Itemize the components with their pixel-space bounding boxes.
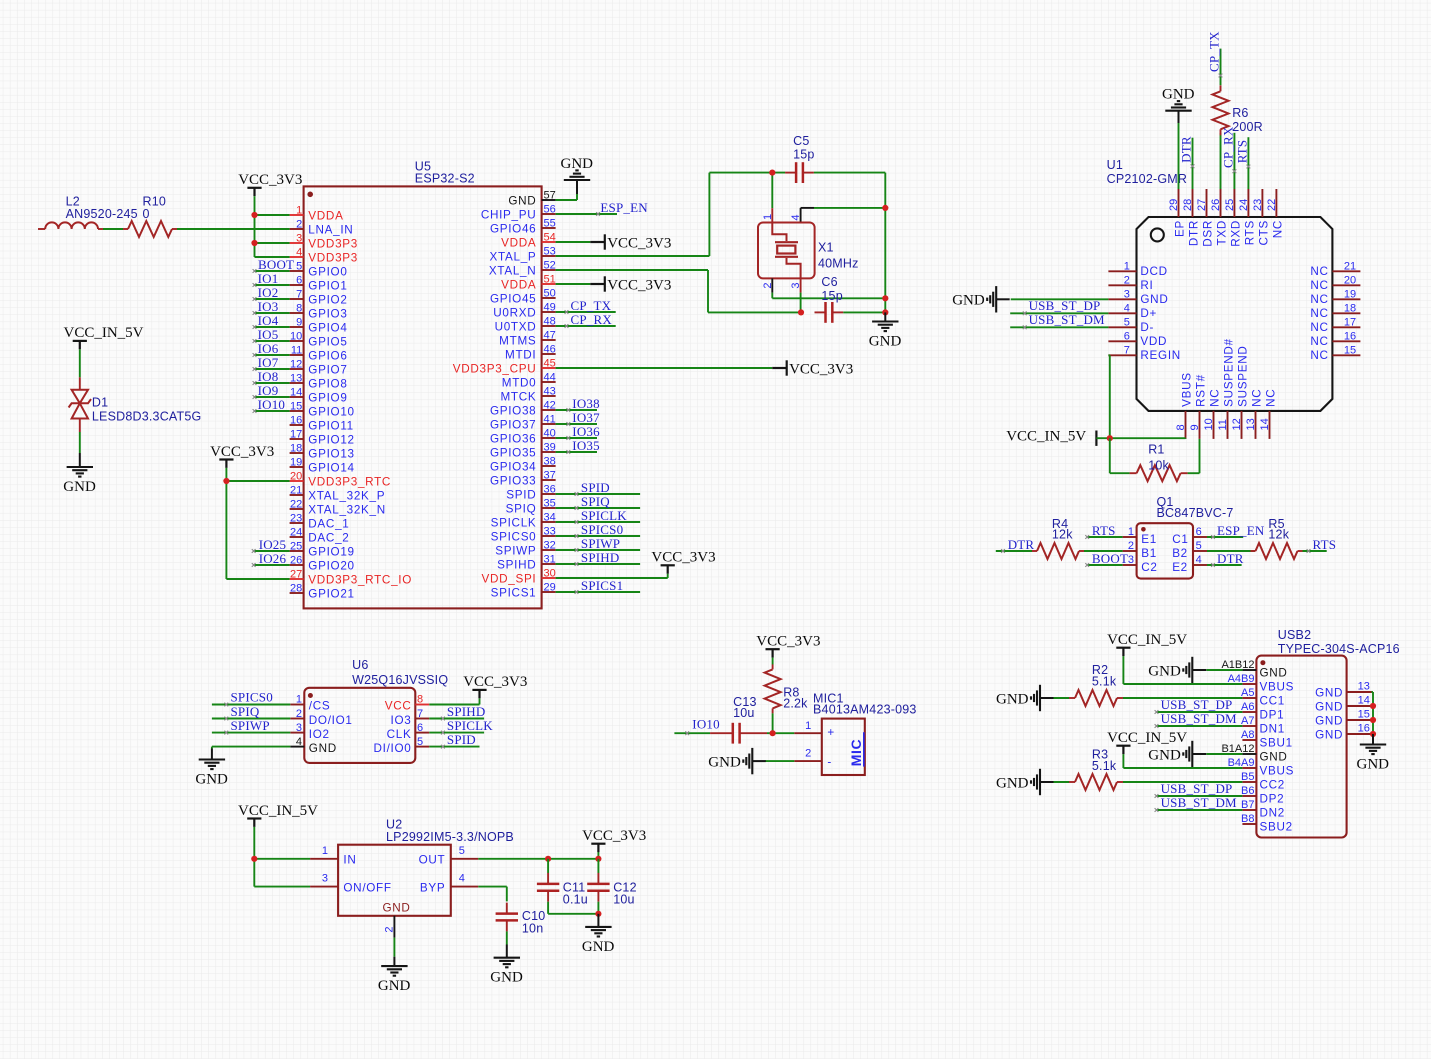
net label SPIWP wire (U6 pin 3)	[212, 731, 290, 735]
svg-text:C1: C1	[1172, 533, 1188, 546]
wire U6 pin4 GND	[212, 747, 290, 749]
ground GND (C10)	[506, 931, 508, 944]
svg-text:GPIO19: GPIO19	[308, 546, 354, 559]
svg-text:USB_ST_DM: USB_ST_DM	[1161, 711, 1237, 726]
svg-text:D-: D-	[1140, 321, 1154, 334]
svg-text:CC1: CC1	[1260, 694, 1285, 707]
svg-text:CP2102-GMR: CP2102-GMR	[1107, 172, 1188, 186]
svg-text:LNA_IN: LNA_IN	[308, 224, 353, 237]
svg-text:56: 56	[544, 203, 556, 215]
net label SPICS0 wire (U5 pin 33)	[556, 534, 641, 538]
svg-text:IO2: IO2	[309, 728, 330, 741]
junction XTAL_N at C6	[798, 309, 804, 315]
svg-text:24: 24	[290, 526, 302, 538]
svg-text:A7: A7	[1241, 715, 1254, 727]
svg-text:35: 35	[544, 497, 556, 509]
svg-text:SPICS1: SPICS1	[581, 578, 623, 593]
svg-text:USB_ST_DP: USB_ST_DP	[1161, 697, 1233, 712]
net label SPIWP wire (U5 pin 32)	[556, 548, 641, 552]
svg-text:26: 26	[1210, 199, 1222, 211]
svg-text:19: 19	[1344, 288, 1356, 300]
svg-text:+: +	[827, 726, 835, 739]
svg-text:GPIO33: GPIO33	[490, 475, 536, 488]
svg-text:AN9520-245: AN9520-245	[66, 207, 138, 221]
svg-text:5.1k: 5.1k	[1092, 675, 1117, 689]
net label USB_ST_DP wire (DP2)	[1155, 794, 1243, 798]
svg-text:DP2: DP2	[1260, 792, 1285, 805]
svg-text:A6: A6	[1241, 701, 1254, 713]
svg-text:SBU1: SBU1	[1260, 736, 1293, 749]
svg-text:GPIO21: GPIO21	[308, 588, 354, 601]
svg-text:VCC_3V3: VCC_3V3	[582, 828, 646, 844]
svg-text:IO2: IO2	[258, 285, 279, 300]
power flag VCC_3V3 (above U5 pin 1)	[238, 172, 302, 196]
capacitor C10 10n	[496, 903, 546, 936]
ground GND (USB2 B1A12)	[1207, 753, 1243, 755]
svg-text:VDD3P3: VDD3P3	[308, 252, 358, 265]
power flag VCC_IN_5V (U1/R1)	[1006, 428, 1096, 446]
svg-text:DP1: DP1	[1260, 708, 1285, 721]
svg-text:RST#: RST#	[1195, 374, 1208, 407]
svg-text:42: 42	[544, 399, 556, 411]
svg-text:VCC_IN_5V: VCC_IN_5V	[64, 325, 144, 341]
svg-text:SPIQ: SPIQ	[231, 704, 260, 719]
svg-text:USB_ST_DP: USB_ST_DP	[1161, 781, 1233, 796]
power flag VCC_3V3 (U2 out)	[582, 828, 646, 852]
junction at pin3	[251, 240, 257, 246]
svg-text:SPICLK: SPICLK	[447, 718, 493, 733]
svg-text:GPIO12: GPIO12	[308, 434, 354, 447]
net label BOOT wire (U5 pin 5)	[253, 269, 290, 273]
wire C11/C12 ground rail	[548, 913, 598, 915]
svg-text:X1: X1	[818, 241, 834, 255]
svg-text:2: 2	[384, 926, 396, 932]
net label IO38 wire (U5 pin 42)	[556, 408, 597, 412]
wire VCC_3V3 to U5 pins 1,3,4	[255, 196, 290, 257]
svg-text:C5: C5	[793, 134, 809, 148]
svg-text:ESP_EN: ESP_EN	[1217, 523, 1265, 538]
svg-text:VCC_3V3: VCC_3V3	[756, 634, 820, 650]
svg-text:SPID: SPID	[581, 480, 610, 495]
svg-text:55: 55	[544, 217, 556, 229]
svg-text:VCC_IN_5V: VCC_IN_5V	[238, 803, 318, 819]
svg-text:GND: GND	[378, 978, 411, 994]
svg-text:5: 5	[296, 260, 302, 272]
svg-text:GPIO37: GPIO37	[490, 419, 536, 432]
svg-text:C2: C2	[1141, 561, 1157, 574]
power flag VCC_3V3 (R8)	[756, 634, 820, 658]
junction VCC_IN_5V node	[1107, 435, 1113, 441]
svg-text:DTR: DTR	[1217, 551, 1244, 566]
svg-text:IO25: IO25	[259, 537, 287, 552]
net label IO36 wire (U5 pin 40)	[556, 436, 597, 440]
svg-text:RTS: RTS	[1234, 140, 1249, 164]
wire R1 branch	[1110, 438, 1200, 473]
svg-text:VDD3P3_RTC_IO: VDD3P3_RTC_IO	[308, 574, 412, 587]
svg-text:VCC_3V3: VCC_3V3	[651, 550, 715, 566]
svg-text:MTDI: MTDI	[505, 349, 536, 362]
svg-text:IO38: IO38	[572, 396, 600, 411]
svg-text:SPIWP: SPIWP	[495, 545, 536, 558]
junction XTAL_P at C5	[769, 170, 775, 176]
svg-text:DN1: DN1	[1260, 722, 1285, 735]
svg-text:NC: NC	[1310, 265, 1328, 278]
junction OUT/C11	[545, 856, 551, 862]
svg-text:16: 16	[1344, 330, 1356, 342]
svg-text:VDDA: VDDA	[501, 279, 536, 292]
net label ESP_EN wire (Q1 pin6 C1)	[1207, 535, 1243, 539]
wire VCC_3V3 to U5 pins 20,27	[226, 468, 289, 579]
svg-text:SPIWP: SPIWP	[581, 536, 620, 551]
net label IO7 wire (U5 pin 12)	[253, 367, 290, 371]
ground GND (U1 pin3)	[1011, 298, 1109, 300]
svg-text:IO36: IO36	[572, 424, 600, 439]
svg-text:51: 51	[544, 273, 556, 285]
junction at pin20	[223, 478, 229, 484]
svg-text:B8: B8	[1241, 813, 1254, 825]
svg-text:14: 14	[1259, 418, 1271, 430]
svg-text:IO3: IO3	[258, 299, 279, 314]
svg-text:VBUS: VBUS	[1181, 372, 1194, 407]
power flag VCC_3V3 (U5 pin 45 VDD3P3_CPU)	[556, 367, 773, 369]
svg-text:7: 7	[1124, 344, 1130, 356]
svg-text:A8: A8	[1241, 729, 1254, 741]
ground + resistor R2 5.1k (CC1)	[1045, 697, 1069, 699]
wire R3 to CC2	[1123, 781, 1242, 783]
svg-text:GPIO1: GPIO1	[308, 280, 347, 293]
power flag VCC_IN_5V (USB2 VBUS B4A9)	[1123, 754, 1242, 768]
svg-text:XTAL_P: XTAL_P	[490, 251, 537, 264]
power flag VCC_3V3 (U5 pin 51)	[556, 283, 591, 285]
svg-text:1: 1	[322, 845, 328, 857]
svg-text:R1: R1	[1148, 443, 1164, 457]
net label RTS wire (U1 pin24)	[1247, 137, 1251, 189]
net label SPID wire (U5 pin 36)	[556, 492, 641, 496]
svg-text:20: 20	[290, 470, 302, 482]
svg-text:47: 47	[544, 329, 556, 341]
svg-text:21: 21	[1344, 260, 1356, 272]
svg-text:11: 11	[291, 344, 302, 356]
svg-text:48: 48	[544, 315, 556, 327]
svg-text:12: 12	[290, 358, 302, 370]
wire XTAL_P net (U5 pin53 to C5/X1 pin1)	[556, 173, 786, 256]
IC U2 LP2992IM5-3.3/NOPB	[310, 818, 514, 938]
svg-text:GND: GND	[1357, 757, 1390, 773]
svg-text:17: 17	[1344, 316, 1356, 328]
svg-text:EP: EP	[1174, 220, 1187, 237]
inductor L2 AN9520-245	[38, 195, 138, 230]
svg-text:GND: GND	[382, 902, 410, 915]
svg-text:28: 28	[1182, 199, 1194, 211]
net label IO5 wire (U5 pin 10)	[253, 339, 290, 343]
svg-text:DO/IO1: DO/IO1	[309, 714, 353, 727]
svg-text:GND: GND	[1148, 663, 1181, 679]
junction OUT/C12	[595, 856, 601, 862]
wire 5V to D1	[79, 349, 81, 377]
svg-text:CTS: CTS	[1257, 220, 1270, 245]
IC U5 ESP32-S2	[290, 160, 556, 609]
svg-text:E2: E2	[1172, 561, 1188, 574]
net label IO1 wire (U5 pin 6)	[253, 283, 290, 287]
net label DTR wire + resistor R4 12k (Q1 pin2 B1)	[996, 549, 1032, 553]
svg-text:5: 5	[459, 845, 465, 857]
svg-text:12k: 12k	[1052, 527, 1073, 541]
wire USB2 shield GND rail	[1372, 692, 1374, 734]
svg-text:IO7: IO7	[258, 355, 279, 370]
svg-text:GPIO4: GPIO4	[308, 322, 347, 335]
net label IO25 wire (U5 pin 25)	[252, 549, 290, 553]
ground GND (U1 EP pin29)	[1178, 123, 1180, 189]
svg-text:BYP: BYP	[420, 881, 446, 894]
net label IO8 wire (U5 pin 13)	[253, 381, 290, 385]
resistor R2 5.1k	[1069, 663, 1123, 706]
capacitor C5 15p	[785, 134, 814, 183]
svg-text:SPIHD: SPIHD	[497, 559, 536, 572]
svg-text:19: 19	[290, 456, 302, 468]
svg-text:10n: 10n	[522, 922, 543, 936]
svg-text:4: 4	[790, 214, 802, 220]
svg-text:43: 43	[544, 385, 556, 397]
junction C12 gnd	[595, 911, 601, 917]
svg-text:1: 1	[1128, 526, 1134, 538]
svg-text:GND: GND	[1148, 747, 1181, 763]
svg-text:GND: GND	[490, 970, 523, 986]
svg-text:6: 6	[417, 722, 423, 734]
svg-text:10k: 10k	[1148, 459, 1169, 473]
junction GND rail / pin2	[882, 295, 888, 301]
svg-text:IO10: IO10	[258, 397, 286, 412]
svg-text:27: 27	[1196, 199, 1208, 211]
svg-text:VCC_3V3: VCC_3V3	[607, 235, 671, 251]
svg-text:36: 36	[544, 483, 556, 495]
svg-text:VDDA: VDDA	[501, 237, 536, 250]
svg-text:BOOT: BOOT	[258, 257, 294, 272]
svg-text:29: 29	[1168, 199, 1180, 211]
svg-text:W25Q16JVSSIQ: W25Q16JVSSIQ	[352, 673, 448, 687]
svg-text:31: 31	[544, 553, 556, 565]
svg-text:GND: GND	[1162, 87, 1195, 103]
net label SPICS0 wire (U6 pin 1)	[212, 703, 290, 707]
net label SPICLK wire (U6 pin 6)	[429, 731, 484, 735]
svg-text:B4013AM423-093: B4013AM423-093	[813, 703, 917, 717]
svg-text:22: 22	[290, 498, 302, 510]
svg-text:U0RXD: U0RXD	[493, 307, 536, 320]
svg-text:22: 22	[1266, 199, 1278, 211]
svg-text:25: 25	[1224, 199, 1236, 211]
power flag VCC_IN_5V (U2)	[238, 803, 318, 827]
wire C5 right to GND rail	[814, 172, 885, 174]
svg-text:GPIO7: GPIO7	[308, 364, 347, 377]
crystal X1 40MHz	[758, 214, 859, 289]
svg-text:NC: NC	[1209, 389, 1222, 407]
svg-text:IN: IN	[343, 854, 356, 867]
net label IO10 wire + capacitor C13 (mic input)	[674, 731, 710, 735]
svg-text:52: 52	[544, 259, 556, 271]
svg-text:GPIO0: GPIO0	[308, 266, 347, 279]
svg-text:GND: GND	[1315, 729, 1343, 742]
svg-text:VCC_3V3: VCC_3V3	[210, 444, 274, 460]
resistor R10 (0 ohm)	[123, 195, 177, 238]
svg-text:3: 3	[1124, 288, 1130, 300]
svg-text:41: 41	[544, 413, 556, 425]
svg-text:NC: NC	[1251, 389, 1264, 407]
net label USB_ST_DM wire (U1 pin5 D-)	[1010, 325, 1108, 329]
svg-text:GND: GND	[561, 156, 594, 172]
IC U6 W25Q16JVSSIQ	[290, 658, 448, 763]
svg-text:0.1u: 0.1u	[563, 893, 588, 907]
wire VCC_IN_5V to VBUS pin8 and REGIN pin7	[1096, 355, 1185, 439]
capacitor C12 10u	[587, 859, 637, 914]
svg-text:MTD0: MTD0	[502, 377, 537, 390]
svg-text:2: 2	[1124, 274, 1130, 286]
power flag VCC_3V3 (U5 pin 30 VDD_SPI)	[556, 574, 668, 578]
svg-text:USB_ST_DP: USB_ST_DP	[1029, 298, 1101, 313]
power flag VCC_IN_5V (USB2 VBUS A4B9)	[1123, 656, 1242, 684]
svg-text:GND: GND	[1260, 666, 1288, 679]
svg-text:ESP_EN: ESP_EN	[600, 200, 648, 215]
wire R8 to MIC+ node	[772, 713, 774, 733]
svg-text:15: 15	[1358, 708, 1370, 720]
svg-text:40: 40	[544, 427, 556, 439]
svg-text:VBUS: VBUS	[1260, 764, 1295, 777]
svg-text:DTR: DTR	[1188, 220, 1201, 246]
svg-text:15p: 15p	[821, 289, 842, 303]
svg-text:18: 18	[290, 442, 302, 454]
resistor R5 12k	[1251, 517, 1303, 559]
svg-text:SUSPEND#: SUSPEND#	[1223, 338, 1236, 407]
svg-text:34: 34	[544, 511, 556, 523]
svg-text:15p: 15p	[793, 147, 814, 161]
svg-text:RXD: RXD	[1229, 220, 1242, 247]
ground GND (USB2 right)	[1357, 734, 1390, 773]
svg-text:-: -	[827, 756, 832, 769]
svg-text:46: 46	[544, 343, 556, 355]
net label DTR wire (Q1 pin4 E2)	[1207, 563, 1242, 567]
svg-text:REGIN: REGIN	[1140, 349, 1181, 362]
junction MIC+ node	[770, 730, 776, 736]
svg-text:VDD: VDD	[1140, 335, 1167, 348]
svg-text:SPICS0: SPICS0	[231, 690, 273, 705]
svg-text:USB_ST_DM: USB_ST_DM	[1029, 312, 1105, 327]
svg-text:44: 44	[544, 371, 556, 383]
svg-text:14: 14	[290, 386, 302, 398]
wire XTAL_N net (U5 pin52 to X1 pin3 / C6)	[556, 270, 801, 312]
svg-text:CLK: CLK	[387, 728, 412, 741]
svg-text:SPICS0: SPICS0	[581, 522, 623, 537]
net label IO2 wire (U5 pin 7)	[253, 297, 290, 301]
svg-text:B5: B5	[1241, 771, 1254, 783]
svg-text:USB_ST_DM: USB_ST_DM	[1161, 795, 1237, 810]
svg-text:A5: A5	[1241, 687, 1254, 699]
net label IO4 wire (U5 pin 9)	[253, 325, 290, 329]
svg-text:B7: B7	[1241, 799, 1254, 811]
svg-text:GPIO2: GPIO2	[308, 294, 347, 307]
svg-text:B2: B2	[1172, 547, 1188, 560]
svg-text:11: 11	[1217, 419, 1229, 430]
svg-text:2.2k: 2.2k	[783, 697, 808, 711]
net label USB_ST_DM wire (DN1)	[1155, 724, 1243, 728]
wire Q1 pin5 B2 to R5	[1207, 550, 1255, 552]
junction at pin1	[251, 212, 257, 218]
ground GND (crystal)	[869, 312, 902, 349]
net label DTR wire (U1 pin28)	[1191, 138, 1195, 189]
svg-text:10: 10	[1203, 418, 1215, 430]
svg-text:VDD3P3: VDD3P3	[308, 238, 358, 251]
svg-text:CP_TX: CP_TX	[1207, 31, 1222, 72]
svg-text:GND: GND	[63, 479, 96, 495]
svg-text:8: 8	[1175, 424, 1187, 430]
net label BOOT wire (Q1 pin3 C2)	[1085, 563, 1122, 567]
net label ESP_EN wire (U5 pin 56 CHIP_PU)	[556, 212, 617, 216]
svg-text:MIC: MIC	[848, 739, 864, 766]
svg-text:SPIHD: SPIHD	[447, 704, 486, 719]
net label SPID wire (U6 pin 5)	[429, 745, 479, 749]
svg-text:GND: GND	[952, 293, 985, 309]
svg-text:GPIO13: GPIO13	[308, 448, 354, 461]
svg-text:GPIO9: GPIO9	[308, 392, 347, 405]
svg-text:GPIO20: GPIO20	[308, 560, 354, 573]
svg-text:15: 15	[1344, 344, 1356, 356]
svg-text:VBUS: VBUS	[1260, 680, 1295, 693]
svg-text:RI: RI	[1140, 279, 1153, 292]
svg-text:SUSPEND: SUSPEND	[1237, 345, 1250, 406]
net label CP_TX wire (U5 pin 49 U0RXD)	[556, 310, 616, 314]
svg-text:6: 6	[1196, 526, 1202, 538]
svg-text:39: 39	[544, 441, 556, 453]
svg-text:BC847BVC-7: BC847BVC-7	[1157, 506, 1234, 520]
svg-text:U0TXD: U0TXD	[495, 321, 537, 334]
wire X1 pin2 to GND rail	[772, 278, 885, 298]
svg-text:10u: 10u	[613, 893, 634, 907]
net label IO26 wire (U5 pin 26)	[252, 563, 290, 567]
svg-text:GND: GND	[309, 742, 337, 755]
svg-text:GND: GND	[1140, 293, 1168, 306]
svg-text:200R: 200R	[1232, 120, 1263, 134]
svg-text:NC: NC	[1310, 279, 1328, 292]
svg-text:5: 5	[1196, 540, 1202, 552]
svg-text:40MHz: 40MHz	[818, 257, 859, 271]
net label SPIHD wire (U6 pin 7)	[429, 717, 484, 721]
net label RTS wire (right of R5)	[1303, 549, 1327, 553]
wire R2 to CC1	[1123, 697, 1242, 699]
transistor array Q1 BC847BVC-7	[1123, 495, 1234, 579]
svg-text:3: 3	[322, 873, 328, 885]
svg-text:XTAL_32K_N: XTAL_32K_N	[308, 504, 386, 517]
connector USB2 TYPEC-304S-ACP16	[1221, 628, 1399, 838]
svg-text:DTR: DTR	[1008, 537, 1035, 552]
svg-text:CHIP_PU: CHIP_PU	[481, 209, 537, 222]
ground GND (C12)	[582, 914, 615, 955]
net label USB_ST_DM wire (DN2)	[1155, 808, 1243, 812]
power flag VCC_3V3 (U5 pin 54)	[556, 241, 591, 243]
svg-text:CC2: CC2	[1260, 778, 1285, 791]
svg-text:SPICLK: SPICLK	[491, 517, 537, 530]
svg-text:GPIO34: GPIO34	[490, 461, 536, 474]
svg-text:SPIHD: SPIHD	[581, 550, 620, 565]
svg-text:VDD3P3_RTC: VDD3P3_RTC	[308, 476, 391, 489]
net label CP_RX wire (U1 pin25 RXD)	[1233, 133, 1237, 189]
svg-text:3: 3	[296, 722, 302, 734]
wire R10 to U5 pin 2 LNA_IN	[177, 228, 290, 230]
svg-text:14: 14	[1358, 694, 1370, 706]
resistor R1 10k	[1130, 443, 1188, 482]
wire BYP to C10	[478, 887, 507, 902]
svg-text:10: 10	[290, 330, 302, 342]
svg-text:50: 50	[544, 287, 556, 299]
svg-text:ON/OFF: ON/OFF	[343, 881, 391, 894]
svg-text:37: 37	[544, 469, 556, 481]
svg-text:SPICLK: SPICLK	[581, 508, 627, 523]
